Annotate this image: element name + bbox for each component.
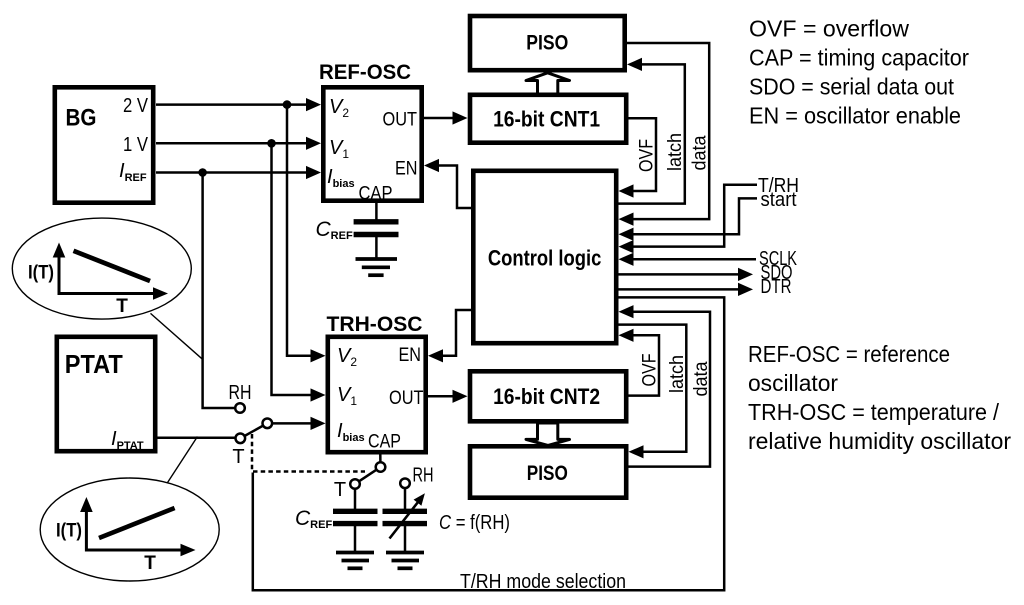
svg-text:CAP: CAP <box>359 183 393 205</box>
svg-text:oscillator: oscillator <box>748 370 838 396</box>
block arrow CNT1 to PISO top <box>526 73 570 94</box>
svg-text:OVF = overflow: OVF = overflow <box>749 15 909 41</box>
svg-text:EN: EN <box>395 158 418 180</box>
wire DTR output from Control logic <box>619 283 754 296</box>
wire T/RH input to Control logic <box>619 185 758 253</box>
wire latch from Control logic to PISO bottom <box>619 325 687 459</box>
svg-text:T: T <box>334 479 346 501</box>
pointer line ellipse to IREF wire <box>151 313 204 359</box>
svg-text:C = f(RH): C = f(RH) <box>439 511 510 534</box>
svg-text:SDO = serial data out: SDO = serial data out <box>749 74 955 100</box>
ellipse graph I(T) decreasing for IREF <box>12 218 191 319</box>
svg-text:T/RH mode selection: T/RH mode selection <box>460 570 626 593</box>
block PTAT <box>57 337 155 451</box>
switch S2 RH contact <box>400 479 410 489</box>
svg-text:Control logic: Control logic <box>488 246 602 271</box>
ground below CREF bottom <box>336 553 374 569</box>
wire EN of TRH-OSC from Control logic <box>428 310 471 362</box>
legend top abbreviations <box>749 15 969 128</box>
svg-text:relative humidity oscillator: relative humidity oscillator <box>748 428 1011 454</box>
wire SCLK input to Control logic <box>619 253 757 266</box>
ground below CREF <box>356 259 398 275</box>
block REF-OSC <box>319 60 422 201</box>
svg-text:OUT: OUT <box>389 387 424 409</box>
wire EN of REF-OSC from Control logic <box>424 159 471 208</box>
block BG <box>55 87 153 202</box>
capacitor CREF under REF-OSC CAP <box>354 203 399 258</box>
svg-text:T: T <box>232 446 244 468</box>
wire SDO output from Control logic <box>619 268 754 281</box>
wire OUT of REF-OSC to CNT1 <box>424 111 468 124</box>
variable capacitor C=f(RH) <box>383 488 428 552</box>
switch S1 T contact <box>236 434 246 444</box>
wire 1V from BG to REF-OSC V1 <box>156 137 321 150</box>
svg-text:PISO: PISO <box>527 462 568 485</box>
wire T/RH mode selection from Control logic to switches <box>253 297 724 590</box>
block PISO top <box>470 16 625 70</box>
wire IREF branch down to switch S1 RH contact <box>203 173 236 409</box>
svg-text:data: data <box>689 135 711 170</box>
svg-text:PISO: PISO <box>526 32 568 55</box>
svg-text:OVF: OVF <box>636 139 658 172</box>
switch S1 RH contact <box>235 403 245 413</box>
svg-text:16-bit CNT1: 16-bit CNT1 <box>493 106 600 131</box>
switch S1 lever <box>245 426 264 436</box>
svg-text:T: T <box>116 296 128 317</box>
block Control logic <box>473 171 616 343</box>
svg-text:I(T): I(T) <box>56 521 82 542</box>
svg-text:PTAT: PTAT <box>65 351 123 379</box>
svg-text:BG: BG <box>66 105 97 132</box>
svg-text:CAP: CAP <box>368 431 401 453</box>
svg-text:data: data <box>690 361 712 396</box>
block TRH-OSC <box>327 312 426 452</box>
wire OVF from CNT1 to Control logic <box>619 118 657 197</box>
junction dot on 2V wire <box>283 100 292 109</box>
svg-text:OVF: OVF <box>639 353 661 386</box>
junction dot on 1V wire <box>267 139 276 148</box>
svg-text:CAP = timing capacitor: CAP = timing capacitor <box>749 44 969 70</box>
capacitor CREF bottom <box>333 489 378 552</box>
svg-text:RH: RH <box>413 465 434 487</box>
wire CAP pin of TRH-OSC to switch S2 <box>379 454 382 462</box>
svg-text:start: start <box>761 188 797 211</box>
svg-text:EN: EN <box>399 344 422 366</box>
svg-text:T: T <box>144 553 156 574</box>
block PISO bottom <box>470 446 626 497</box>
wire start input to Control logic <box>619 198 758 240</box>
svg-text:DTR: DTR <box>761 275 792 298</box>
ellipse graph I(T) increasing for IPTAT <box>40 478 219 581</box>
wire latch from Control logic to PISO top <box>619 58 685 204</box>
wire S1 pole to TRH-OSC Ibias <box>272 417 325 430</box>
dashed gang link S1 to S2 <box>252 434 365 472</box>
wire IPTAT from PTAT to switch S1 T contact <box>158 436 236 439</box>
wire OVF from CNT2 to Control logic <box>619 329 660 396</box>
switch S2 lever <box>359 470 377 482</box>
wire 2V from BG to REF-OSC V2 <box>156 98 321 111</box>
pointer line ellipse to IPTAT wire <box>167 437 197 483</box>
wire data from PISO top to Control logic <box>619 43 710 226</box>
svg-text:16-bit CNT2: 16-bit CNT2 <box>493 384 600 409</box>
svg-text:REF-OSC: REF-OSC <box>319 60 411 84</box>
svg-text:OUT: OUT <box>383 109 418 131</box>
svg-text:1 V: 1 V <box>123 134 149 156</box>
switch S1 pole <box>263 419 273 429</box>
legend bottom oscillator names <box>748 341 1011 454</box>
block 16-bit CNT1 <box>470 95 626 143</box>
wire data from PISO bottom to Control logic <box>619 305 711 467</box>
wire IREF from BG to REF-OSC Ibias <box>156 166 321 179</box>
block arrow CNT2 to PISO bottom <box>526 423 570 445</box>
wire 1V branch down to TRH-OSC V1 <box>272 143 326 401</box>
svg-text:EN = oscillator enable: EN = oscillator enable <box>749 103 961 129</box>
block 16-bit CNT2 <box>470 371 626 421</box>
svg-text:RH: RH <box>229 382 252 404</box>
switch S2 T contact <box>350 479 360 489</box>
wire 2V branch down to TRH-OSC V2 <box>287 105 326 363</box>
svg-text:2 V: 2 V <box>123 95 149 117</box>
svg-text:latch: latch <box>664 133 686 171</box>
switch S2 pole <box>376 462 386 472</box>
svg-text:REF-OSC = reference: REF-OSC = reference <box>748 341 950 367</box>
svg-text:latch: latch <box>666 355 688 393</box>
svg-text:TRH-OSC = temperature /: TRH-OSC = temperature / <box>748 399 1000 425</box>
svg-text:I(T): I(T) <box>28 263 54 284</box>
ground below C=f(RH) <box>386 553 424 569</box>
wire OUT of TRH-OSC to CNT2 <box>428 390 468 403</box>
svg-text:TRH-OSC: TRH-OSC <box>327 312 423 336</box>
junction dot on IREF wire <box>198 168 207 177</box>
